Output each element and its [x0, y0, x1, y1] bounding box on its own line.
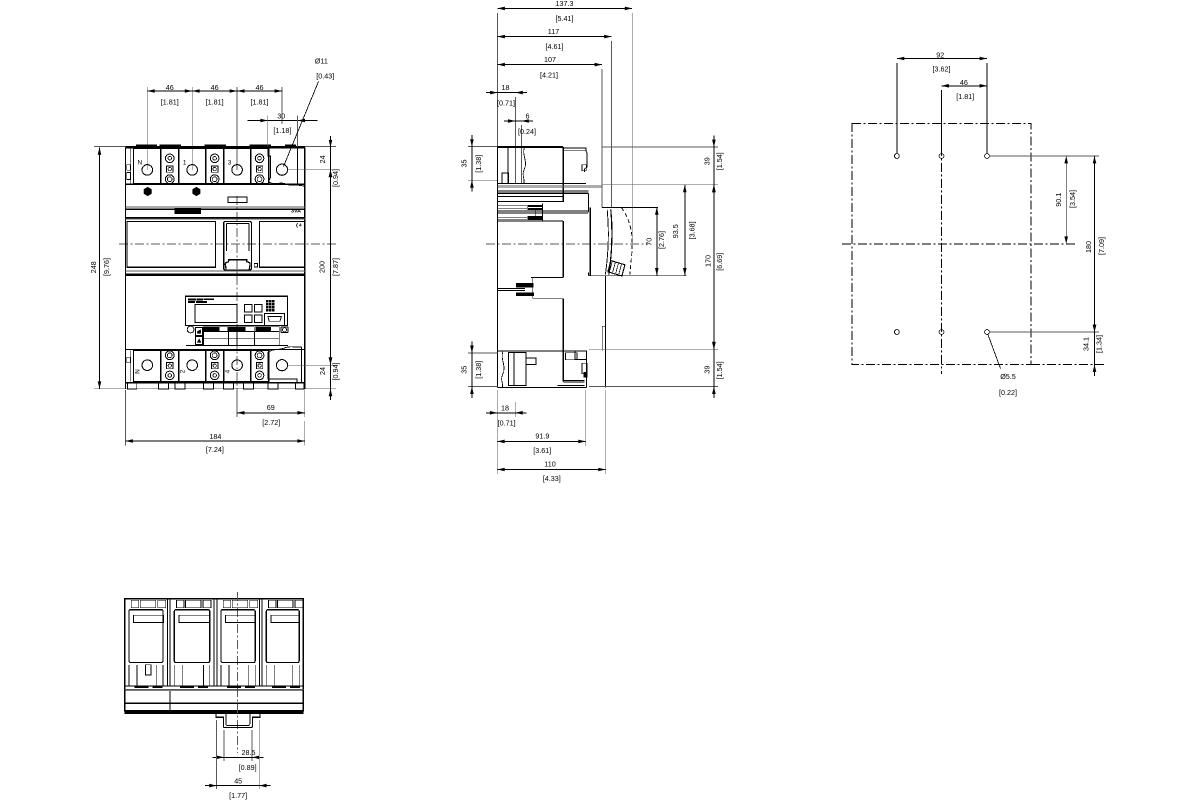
- side view handle lever: [609, 210, 612, 275]
- bottom view top vent slots: [131, 600, 139, 608]
- svg-text:[2.76]: [2.76]: [657, 231, 666, 249]
- svg-text:184: 184: [209, 432, 221, 441]
- side view extension lines: [497, 13, 499, 147]
- dim 137.3 depth with handle: [498, 7, 633, 9]
- dim 110 overall depth: [605, 390, 607, 474]
- svg-text:35: 35: [459, 366, 468, 374]
- svg-text:[1.54]: [1.54]: [715, 152, 724, 170]
- svg-text:[4.33]: [4.33]: [543, 474, 561, 483]
- dim 6: [504, 120, 533, 122]
- svg-text:90.1: 90.1: [1054, 193, 1063, 207]
- svg-text:[2.72]: [2.72]: [262, 418, 280, 427]
- dim 18 top: [486, 92, 527, 94]
- svg-text:[1.81]: [1.81]: [161, 97, 179, 106]
- drilling holes top row: [895, 154, 900, 159]
- svg-text:[0.24]: [0.24]: [518, 127, 536, 136]
- svg-text:30: 30: [277, 111, 285, 120]
- dim 39 top right: [713, 136, 715, 197]
- front view small label window: [228, 197, 247, 203]
- side view bottom shroud: [498, 350, 587, 352]
- dim 107: [498, 64, 603, 66]
- dim 93.5: [684, 185, 686, 276]
- front view left edge sliver: [130, 149, 132, 184]
- svg-text:[7.09]: [7.09]: [1097, 237, 1106, 255]
- side view right extension lines: [602, 146, 719, 148]
- svg-text:2: 2: [179, 369, 186, 373]
- front view upper face split lines: [126, 206, 305, 208]
- svg-text:248: 248: [89, 261, 98, 273]
- front view toggle knob: [225, 260, 250, 270]
- front view bottom screw strips: [161, 351, 179, 382]
- bottom view DIN clip tab: [216, 714, 260, 728]
- svg-text:18: 18: [501, 403, 509, 412]
- side view top shroud front step block: [563, 148, 587, 172]
- front view bottom terminal circles and labels: [142, 360, 153, 371]
- ETU com port: [265, 314, 285, 326]
- svg-text:[0.71]: [0.71]: [498, 418, 516, 427]
- side view front mid face lower: [562, 299, 564, 382]
- front view top-right tab with hole: [268, 147, 271, 181]
- svg-text:3: 3: [228, 160, 232, 167]
- rating plate right button: [281, 327, 288, 333]
- svg-text:[4.21]: [4.21]: [540, 71, 558, 80]
- svg-text:[1.38]: [1.38]: [474, 361, 483, 379]
- front view horizontal centreline: [119, 243, 336, 245]
- svg-text:200: 200: [317, 261, 326, 273]
- front view hole circle (top): [276, 164, 287, 175]
- front view lower thick band: [126, 270, 305, 272]
- svg-text:35: 35: [459, 160, 468, 168]
- svg-text:[0.71]: [0.71]: [497, 99, 515, 108]
- svg-text:107: 107: [544, 55, 556, 64]
- bottom view outline: [125, 599, 304, 711]
- front view rating plate strip: [186, 345, 288, 347]
- svg-text:Ø11: Ø11: [315, 57, 328, 66]
- svg-text:24: 24: [318, 155, 327, 163]
- svg-text:18: 18: [502, 83, 510, 92]
- dim 39 bottom right: [713, 338, 715, 398]
- side view front mid face upper: [562, 221, 564, 278]
- front view brand label: [175, 208, 201, 213]
- svg-text:170: 170: [703, 255, 712, 267]
- dim 45 tab: [216, 720, 218, 789]
- svg-text:[0.43]: [0.43]: [316, 72, 334, 81]
- rating plate table: [204, 337, 280, 339]
- dim 18 bottom: [496, 390, 498, 474]
- svg-text:[9.76]: [9.76]: [102, 258, 111, 276]
- side view horizontal centreline: [486, 243, 648, 245]
- dim leader Ø5.5 hole: [988, 334, 1001, 368]
- side view DIN rail lower cluster: [531, 277, 563, 279]
- svg-text:34.1: 34.1: [1082, 337, 1091, 351]
- svg-text:4: 4: [224, 369, 231, 373]
- svg-text:N: N: [137, 160, 142, 167]
- svg-text:1: 1: [183, 160, 187, 167]
- svg-text:[1.18]: [1.18]: [273, 126, 291, 135]
- side view terminal zone base lines: [498, 183, 586, 185]
- dim 24 bottom right: [330, 353, 332, 400]
- svg-text:[0.94]: [0.94]: [331, 363, 340, 381]
- bottom view mid strip details: [125, 685, 304, 687]
- front view top edge tabs: [136, 145, 157, 147]
- svg-text:39: 39: [702, 157, 711, 165]
- side view pocket bottom line: [589, 275, 687, 277]
- svg-text:[3.61]: [3.61]: [533, 446, 551, 455]
- dim 34.1: [1094, 321, 1096, 376]
- svg-text:[1.77]: [1.77]: [229, 791, 247, 800]
- svg-text:[5.41]: [5.41]: [556, 14, 574, 23]
- bottom view module faces: [129, 610, 163, 663]
- front view tab torn edge: [269, 182, 305, 187]
- front view bottom-left sliver: [130, 351, 132, 382]
- bottom view module separators: [166, 599, 168, 686]
- side view handle travel arc dashed: [622, 208, 633, 275]
- front view toggle frame: [224, 221, 252, 270]
- dim 46 hole spacing: [942, 85, 988, 87]
- side view DIN rail upper cluster: [498, 201, 563, 203]
- front view handle lock square: [254, 263, 257, 267]
- drilling view outline dash-dot: [852, 124, 1031, 365]
- ETU test connector dots: [266, 300, 268, 302]
- dim 30 tab width: [247, 120, 317, 122]
- dim 69 bottom: [236, 390, 238, 417]
- svg-text:117: 117: [548, 27, 559, 36]
- svg-text:180: 180: [1084, 241, 1093, 253]
- side view top shroud torn-section line: [523, 147, 526, 184]
- bottom view centreline: [236, 592, 238, 753]
- dim 248 overall height: [99, 147, 101, 388]
- svg-text:92: 92: [936, 50, 944, 59]
- front view handle right panel: [259, 222, 304, 268]
- dim 24 top right: [335, 146, 337, 148]
- svg-text:137.3: 137.3: [556, 0, 574, 8]
- svg-text:69: 69: [267, 403, 275, 412]
- svg-text:[7.24]: [7.24]: [206, 445, 224, 454]
- front view bottom-right tab with hole: [268, 347, 302, 353]
- front view bottom terminal modules: [134, 351, 161, 382]
- dim 35 bottom left: [468, 352, 498, 354]
- svg-text:[0.94]: [0.94]: [331, 169, 340, 187]
- front view body outline: [126, 146, 305, 148]
- svg-text:6: 6: [526, 111, 530, 120]
- svg-text:46: 46: [166, 83, 174, 92]
- front view hex fixing screws: [144, 187, 152, 196]
- front view trip unit (ETU) box: [186, 296, 288, 325]
- dim 117: [498, 36, 612, 38]
- svg-text:[1.81]: [1.81]: [251, 97, 269, 106]
- svg-text:110: 110: [544, 460, 555, 469]
- drilling holes bottom row: [895, 330, 900, 335]
- side view top shroud: [498, 146, 564, 148]
- dim 92 hole spacing: [897, 58, 987, 60]
- svg-text:[4.61]: [4.61]: [546, 42, 564, 51]
- dim 90.1: [1065, 156, 1067, 244]
- svg-text:[1.81]: [1.81]: [206, 97, 224, 106]
- dim 180 hole rows: [1094, 156, 1096, 332]
- side view toggle pocket sides: [588, 193, 590, 212]
- bottom view thick base band: [125, 711, 304, 714]
- front view hole circle (bottom): [276, 360, 287, 371]
- svg-text:[1.38]: [1.38]: [474, 155, 483, 173]
- front view bottom terminal zone top line: [126, 348, 305, 350]
- front view top screw strips: [161, 149, 179, 184]
- dim 28.5 tab: [223, 730, 225, 761]
- dim 184 overall width: [125, 390, 127, 446]
- bottom view module1 slot: [146, 665, 151, 675]
- drilling view vertical centreline: [941, 115, 943, 374]
- dim 70 handle window: [656, 207, 658, 275]
- front view handle left panel: [127, 222, 216, 268]
- svg-text:45: 45: [234, 776, 242, 785]
- svg-text:[1.54]: [1.54]: [715, 361, 724, 379]
- rating plate label fields: [204, 327, 229, 332]
- ETU label text block: [189, 299, 196, 301]
- ETU buttons: [244, 305, 251, 312]
- drilling view hole extension lines: [896, 63, 898, 154]
- svg-text:28.5: 28.5: [242, 748, 256, 757]
- front view: extension/centre lines: [94, 146, 336, 148]
- svg-text:[7.87]: [7.87]: [331, 258, 340, 276]
- svg-text:N: N: [135, 369, 142, 374]
- dim 170 right: [713, 185, 715, 349]
- dim 46-46-46 pole pitch: [147, 90, 282, 92]
- svg-text:24: 24: [318, 367, 327, 375]
- svg-text:[3.68]: [3.68]: [688, 221, 697, 239]
- svg-text:91.9: 91.9: [535, 431, 549, 440]
- svg-text:46: 46: [211, 83, 219, 92]
- side view escutcheon top line: [602, 206, 658, 208]
- dim 35 top left: [468, 146, 498, 148]
- front view top terminal modules: [134, 149, 161, 184]
- front view handle zone top lines: [126, 217, 305, 219]
- svg-text:3VA: 3VA: [291, 208, 301, 214]
- svg-text:46: 46: [256, 83, 264, 92]
- svg-text:[0.89]: [0.89]: [239, 763, 257, 772]
- front view vertical centreline: [236, 196, 238, 417]
- dim 200 right: [330, 170, 332, 365]
- front view bottom feet: [125, 383, 127, 389]
- svg-text:[1.81]: [1.81]: [956, 92, 974, 101]
- dim 91.9: [585, 390, 587, 446]
- side view handle knob hatched: [608, 261, 625, 276]
- svg-text:70: 70: [645, 238, 654, 246]
- front view terminal circles and pole labels N 1 3: [142, 165, 153, 176]
- svg-text:93.5: 93.5: [671, 224, 680, 238]
- svg-text:[1.34]: [1.34]: [1095, 335, 1104, 353]
- side view rear edge: [497, 147, 499, 388]
- ETU display window: [195, 305, 237, 323]
- bottom view under-module dashes: [135, 686, 149, 688]
- bottom view lower bands: [125, 689, 304, 691]
- side view ETU front face: [605, 276, 607, 388]
- front view top terminal zone base line: [126, 183, 305, 185]
- svg-text:46: 46: [960, 78, 968, 87]
- svg-text:[6.69]: [6.69]: [715, 253, 724, 271]
- svg-text:[0.22]: [0.22]: [999, 388, 1017, 397]
- drilling view horizontal centreline: [842, 243, 1075, 245]
- svg-text:Ø5.5: Ø5.5: [1000, 372, 1016, 381]
- svg-text:39: 39: [702, 366, 711, 374]
- svg-text:[3.62]: [3.62]: [933, 64, 951, 73]
- svg-text:[3.54]: [3.54]: [1068, 190, 1077, 208]
